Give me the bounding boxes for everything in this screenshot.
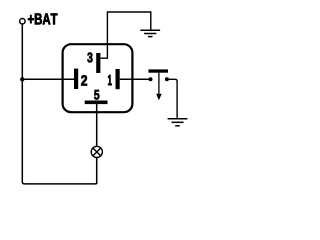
ground symbol G2 (right) [168, 119, 188, 126]
label +BAT [28, 14, 57, 25]
relay body U1 (rounded rectangle) [63, 44, 133, 112]
wire from relay pin 5 down to lamp [96, 104, 98, 146]
relay pin 5 blade [85, 101, 108, 105]
wire from switch right contact to ground G2 [167, 79, 177, 118]
pin label 1 [108, 75, 111, 85]
switch S1 movable contact bar [148, 69, 168, 72]
switch S1 right contact dot [165, 77, 169, 81]
junction dot node A [20, 77, 24, 81]
wire from pin 3 up and right to ground [100, 12, 150, 58]
switch S1 actuation arrow [156, 73, 162, 101]
relay pin 2 blade [74, 69, 78, 89]
ground symbol G1 (top right) [140, 30, 160, 36]
pin label 5 [94, 90, 99, 100]
wire left vertical from +BAT terminal to bottom-left corner [22, 24, 24, 184]
relay pin 1 blade [116, 69, 120, 89]
switch S1 left contact dot [149, 77, 153, 81]
relay pin 3 blade [96, 53, 100, 73]
bottom wire [24, 183, 97, 185]
wire from node A to relay pin 2 [22, 78, 74, 80]
terminal +BAT (open circle) [20, 19, 26, 25]
pin label 2 [81, 75, 87, 85]
wire from relay pin 1 to switch [120, 78, 149, 80]
wire from lamp to bottom wire [96, 158, 98, 184]
lamp L1 (circle with X) [91, 146, 102, 157]
pin label 3 [87, 53, 92, 63]
